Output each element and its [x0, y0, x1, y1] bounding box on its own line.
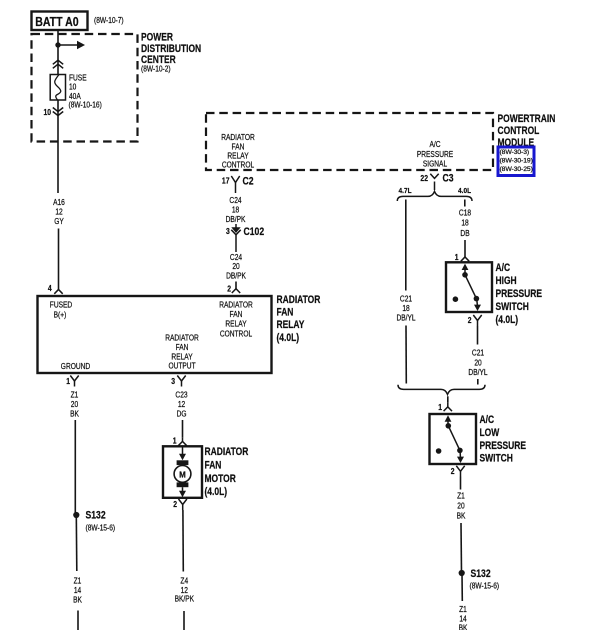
in-line connector C102 pin 3 [226, 224, 265, 252]
connector chevrons below fuse [53, 108, 63, 116]
svg-text:12: 12 [178, 399, 185, 409]
svg-text:FAN: FAN [277, 307, 294, 319]
svg-text:DG: DG [177, 409, 187, 419]
svg-text:2: 2 [173, 499, 177, 509]
svg-text:FAN: FAN [205, 460, 222, 472]
svg-text:BK: BK [459, 623, 468, 630]
4.7L branch wire lower [405, 326, 407, 384]
svg-text:A16: A16 [53, 197, 65, 207]
svg-text:POWERTRAIN: POWERTRAIN [498, 113, 556, 125]
svg-text:BK: BK [457, 511, 466, 521]
wire stub to merge brace [477, 379, 479, 385]
svg-text:C23: C23 [175, 390, 187, 400]
splice S132 [73, 510, 115, 533]
svg-text:SWITCH: SWITCH [480, 452, 513, 464]
svg-text:(8W-10-2): (8W-10-2) [141, 64, 171, 74]
svg-text:GROUND: GROUND [61, 361, 90, 371]
motor pin 1 fork [173, 436, 187, 446]
wire to bottom edge [77, 611, 79, 630]
wire label C21 20 DB/YL [468, 348, 487, 377]
svg-text:A/C: A/C [496, 262, 511, 274]
radiator fan motor box [163, 446, 202, 498]
wire below splice [75, 515, 78, 571]
svg-text:CONTROL: CONTROL [222, 160, 254, 170]
relay internal labels [50, 300, 253, 371]
svg-text:LOW: LOW [480, 427, 501, 439]
label POWER DISTRIBUTION CENTER [141, 32, 201, 74]
svg-text:10: 10 [43, 107, 51, 117]
svg-text:2: 2 [227, 284, 231, 294]
svg-text:1: 1 [66, 376, 70, 386]
low switch pin 2 fork [451, 466, 465, 477]
motor M symbol [174, 446, 191, 497]
wire label Z1 14 BK [459, 604, 468, 630]
low switch internals [436, 415, 464, 463]
svg-text:20: 20 [474, 358, 481, 368]
svg-text:RADIATOR: RADIATOR [205, 446, 249, 458]
svg-text:RADIATOR: RADIATOR [277, 294, 321, 306]
label POWERTRAIN CONTROL MODULE [498, 113, 556, 149]
svg-text:CONTROL: CONTROL [498, 125, 540, 137]
svg-text:PRESSURE: PRESSURE [480, 440, 527, 452]
connector C2 pin 17 [222, 175, 254, 193]
connector chevrons above fuse [53, 60, 63, 68]
powertrain control module dashed box [206, 113, 493, 170]
fuse 10 40A [50, 75, 65, 101]
engine merge brace (bottom) [398, 385, 485, 395]
svg-text:(4.0L): (4.0L) [496, 314, 519, 326]
hyperlink references box [498, 147, 534, 176]
engine split brace (top) [397, 191, 472, 201]
svg-text:BK/PK: BK/PK [175, 594, 195, 604]
svg-text:RELAY: RELAY [277, 319, 305, 331]
wire label Z1 14 BK [73, 576, 82, 605]
wire label C21 18 DB/YL [396, 294, 415, 323]
svg-text:3: 3 [226, 227, 230, 237]
svg-text:C2: C2 [242, 175, 254, 187]
4.0L branch wire [464, 200, 466, 207]
svg-text:RADIATOR: RADIATOR [221, 132, 255, 142]
svg-text:A/C: A/C [480, 414, 495, 426]
wire label Z1 20 BK [457, 491, 466, 520]
svg-text:GY: GY [54, 217, 64, 227]
svg-text:Z1: Z1 [71, 390, 79, 400]
svg-text:14: 14 [74, 585, 81, 595]
battery feed box BATT A0 [32, 12, 88, 31]
svg-text:SIGNAL: SIGNAL [423, 159, 447, 169]
wire from BATT A0 down to fuse [57, 30, 59, 75]
svg-text:22: 22 [420, 173, 428, 183]
svg-text:RELAY: RELAY [225, 319, 246, 329]
svg-text:Z1: Z1 [457, 491, 465, 501]
wire from merge to low switch [447, 396, 449, 403]
svg-text:C21: C21 [400, 294, 412, 304]
pin 1 fork (ground) [66, 376, 78, 387]
svg-text:Z1: Z1 [74, 576, 82, 586]
svg-text:PRESSURE: PRESSURE [496, 288, 543, 300]
svg-text:C3: C3 [443, 173, 455, 185]
svg-text:FUSED: FUSED [50, 300, 72, 310]
wire to relay pin 4 [58, 229, 60, 290]
svg-text:(8W-30-25): (8W-30-25) [500, 166, 533, 173]
svg-text:CONTROL: CONTROL [220, 329, 252, 339]
svg-text:SWITCH: SWITCH [496, 301, 529, 313]
svg-text:10: 10 [69, 82, 76, 92]
svg-text:(8W-30-19): (8W-30-19) [500, 157, 533, 164]
label A/C LOW PRESSURE SWITCH [480, 414, 527, 465]
motor pin 2 fork [173, 499, 187, 510]
svg-text:FAN: FAN [176, 342, 189, 352]
svg-text:DB/YL: DB/YL [396, 313, 415, 323]
svg-text:MOTOR: MOTOR [205, 473, 236, 485]
svg-text:(8W-15-6): (8W-15-6) [86, 523, 116, 533]
svg-text:B(+): B(+) [54, 310, 67, 320]
svg-text:C102: C102 [244, 226, 265, 238]
svg-text:20: 20 [71, 399, 78, 409]
wire to bottom edge [183, 611, 185, 630]
svg-text:Z1: Z1 [459, 604, 467, 614]
wire label C18 18 DB [459, 208, 471, 238]
svg-text:20: 20 [457, 501, 464, 511]
svg-text:12: 12 [55, 207, 62, 217]
wire below high switch [477, 326, 479, 345]
label RADIATOR FAN MOTOR (4.0L) [205, 446, 249, 498]
svg-text:1: 1 [438, 402, 442, 412]
motor return wire [182, 510, 184, 572]
4.7L branch wire down [405, 200, 407, 291]
svg-text:BK: BK [70, 409, 79, 419]
svg-text:BK: BK [73, 595, 82, 605]
svg-text:S132: S132 [471, 568, 492, 580]
pin 2 fork [227, 284, 240, 294]
svg-text:20: 20 [232, 262, 239, 272]
svg-text:3: 3 [171, 376, 175, 386]
connector C3 pin 22 [420, 173, 454, 190]
svg-text:A/C: A/C [429, 139, 440, 149]
wire below low switch [460, 477, 462, 490]
svg-text:4.0L: 4.0L [458, 188, 472, 195]
svg-text:4.7L: 4.7L [399, 188, 413, 195]
svg-text:C18: C18 [459, 208, 471, 218]
svg-text:C24: C24 [230, 252, 242, 262]
splice S132 (right) [459, 568, 500, 590]
high switch pin 1 fork [455, 252, 469, 262]
svg-text:(8W-10-7): (8W-10-7) [94, 15, 124, 25]
svg-text:C24: C24 [229, 195, 241, 205]
wire label C24 18 DB/PK [226, 195, 246, 223]
svg-text:HIGH: HIGH [496, 275, 517, 287]
wire label C23 12 DG [175, 390, 187, 418]
svg-text:18: 18 [232, 205, 239, 215]
wire from fuse down [57, 100, 59, 193]
svg-text:OUTPUT: OUTPUT [168, 361, 196, 371]
power distribution center dashed box [32, 34, 138, 142]
label RADIATOR FAN RELAY CONTROL (inside PCM) [221, 132, 255, 169]
wire to motor pin 1 [182, 420, 184, 438]
label A/C HIGH PRESSURE SWITCH (4.0L) [496, 262, 543, 326]
svg-text:17: 17 [222, 176, 230, 186]
svg-text:2: 2 [451, 466, 455, 476]
svg-text:S132: S132 [86, 510, 107, 522]
svg-text:(8W-30-3): (8W-30-3) [500, 149, 530, 156]
label A/C PRESSURE SIGNAL (inside PCM) [417, 139, 454, 168]
svg-text:FAN: FAN [230, 309, 243, 319]
svg-text:BATT A0: BATT A0 [35, 15, 78, 29]
A/C low pressure switch box [430, 414, 477, 464]
label RADIATOR FAN RELAY (4.0L) [277, 294, 321, 344]
wire to splice [460, 523, 463, 573]
radiator fan relay box [38, 296, 272, 373]
low switch pin 1 fork [438, 402, 452, 412]
wire label Z4 12 BK/PK [175, 576, 195, 604]
svg-text:18: 18 [461, 218, 468, 228]
svg-text:1: 1 [173, 436, 177, 446]
A/C high pressure switch box [446, 262, 492, 312]
svg-text:(8W-10-16): (8W-10-16) [69, 100, 102, 110]
svg-text:C21: C21 [472, 348, 484, 358]
svg-text:DB/PK: DB/PK [226, 271, 246, 281]
wire to high pressure switch [464, 240, 466, 257]
svg-text:(4.0L): (4.0L) [277, 332, 300, 344]
svg-text:DB/YL: DB/YL [468, 368, 487, 378]
svg-text:2: 2 [468, 315, 472, 325]
svg-text:M: M [179, 470, 186, 479]
ground wire down [74, 420, 76, 515]
fuse value label [69, 73, 102, 110]
svg-text:POWER: POWER [141, 32, 173, 44]
node junction dot [55, 42, 60, 47]
wire label A16 12 GY [53, 197, 65, 226]
wire label C24 20 DB/PK [226, 252, 246, 280]
wire below splice [461, 573, 463, 601]
svg-text:RADIATOR: RADIATOR [165, 333, 199, 343]
svg-text:(8W-15-6): (8W-15-6) [470, 581, 500, 591]
svg-text:18: 18 [402, 303, 409, 313]
svg-text:DB: DB [460, 228, 469, 238]
svg-text:PRESSURE: PRESSURE [417, 149, 454, 159]
pin 4 fork [48, 284, 63, 294]
svg-text:FAN: FAN [232, 142, 245, 152]
wire to relay pin 2 [235, 282, 237, 289]
svg-text:RADIATOR: RADIATOR [219, 300, 253, 310]
pin 3 fork (relay output) [171, 376, 185, 387]
high switch pin 2 fork [468, 315, 482, 326]
svg-text:Z4: Z4 [180, 576, 188, 586]
wire label Z1 20 BK [70, 390, 79, 418]
svg-text:1: 1 [455, 252, 459, 262]
arrow to other circuits [58, 41, 85, 49]
svg-text:DB/PK: DB/PK [226, 214, 246, 224]
svg-text:(4.0L): (4.0L) [205, 486, 228, 498]
high switch internals [453, 264, 481, 311]
